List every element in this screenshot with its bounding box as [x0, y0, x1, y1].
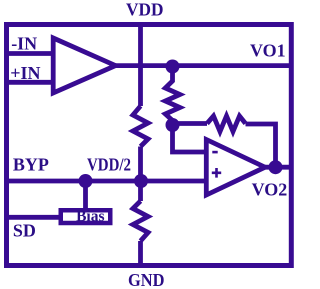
op-amp U1 — [53, 38, 115, 93]
plus sign U2 — [212, 168, 221, 178]
wire bias tap — [83, 181, 88, 208]
node junction bias tap — [79, 174, 93, 188]
wire inverting input U2 — [173, 125, 208, 152]
minus sign U2 — [212, 151, 217, 154]
svg-text:-IN: -IN — [11, 34, 37, 54]
op-amp U2 — [206, 140, 265, 196]
node junction VO1/R1 — [166, 60, 180, 74]
resistor R3 — [133, 201, 148, 241]
node VDD/2 — [134, 174, 148, 188]
svg-text:GND: GND — [128, 270, 165, 289]
svg-text:Bias: Bias — [76, 208, 104, 225]
resistor R2 — [133, 106, 148, 147]
wire VO2 output — [263, 165, 291, 170]
wire feedback left — [173, 121, 208, 126]
node VO2 output — [269, 160, 283, 174]
wire BYP / VDD-2 row — [5, 179, 207, 184]
bias block — [61, 210, 111, 223]
svg-text:VDD/2: VDD/2 — [87, 155, 131, 175]
svg-text:VO2: VO2 — [252, 180, 288, 200]
node junction R1/feedback — [166, 118, 180, 132]
svg-text:VDD: VDD — [126, 0, 164, 20]
wire feedback right down — [246, 124, 276, 167]
wire +IN input — [5, 80, 53, 85]
wire -IN input — [5, 51, 53, 56]
wire VDD rail lower — [138, 241, 143, 263]
svg-text:BYP: BYP — [13, 155, 49, 175]
wire VO1 output — [113, 63, 291, 68]
svg-text:VO1: VO1 — [250, 40, 286, 60]
border frame — [7, 25, 292, 266]
wire VDD rail middle — [138, 147, 143, 202]
wire VDD rail upper — [138, 25, 143, 106]
wire SD input — [5, 215, 59, 220]
resistor R1 — [165, 67, 180, 126]
resistor R4 feedback — [207, 116, 246, 132]
svg-text:SD: SD — [13, 221, 36, 241]
svg-text:+IN: +IN — [10, 63, 40, 83]
